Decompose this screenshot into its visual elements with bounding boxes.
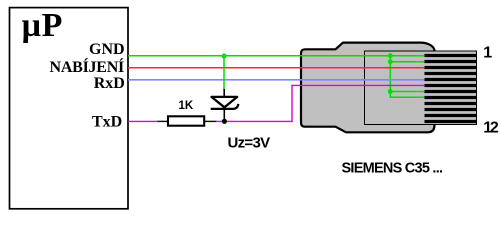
green branch to diode [223,56,225,90]
pin 3 bar [425,66,477,69]
zener diode D1 lead bottom [223,107,225,121]
pin 4 bar [425,72,477,75]
wire RxD blue [128,79,425,81]
zener diode D1 triangle [212,97,238,107]
pin 11 bar [425,114,477,117]
resistor R1 [168,116,204,125]
svg-text:TxD: TxD [92,113,122,130]
pin 7 bar [425,90,477,93]
pin 5 bar [425,78,477,81]
wire to pin 7 [390,91,424,93]
svg-text:SIEMENS C35 ...: SIEMENS C35 ... [342,160,443,176]
pin 10 bar [425,108,477,111]
junction dot TxD/diode [222,119,227,124]
wire TxD magenta from box [128,120,158,122]
wire black out of resistor [205,120,217,122]
wire TxD riser up [291,85,293,122]
pin 12 bar [425,120,477,123]
connector contact block [365,51,477,125]
junction dot GND branch [222,54,227,59]
pin 6 bar [425,84,477,87]
pin 2 bar [425,60,477,63]
green bus vertical in connector [389,56,391,97]
svg-text:RxD: RxD [94,75,125,92]
svg-text:Uz=3V: Uz=3V [228,134,271,151]
junction dot pin2 [388,59,393,64]
wire TxD magenta to riser [216,120,293,122]
svg-text:12: 12 [483,119,499,136]
wire black into resistor [158,120,168,122]
wire TxD to pin 6 [291,84,424,86]
zener diode D1 cathode bar with hook [211,104,239,109]
connector body (Siemens C35 plug) [301,43,435,133]
junction dot pin7 [388,89,393,94]
wire to pin 8 [390,96,425,98]
svg-text:NABÍJENÍ: NABÍJENÍ [50,57,124,76]
svg-text:1K: 1K [179,100,194,112]
microprocessor box U1 [10,8,129,209]
pin 1 bar [425,54,477,57]
wire GND green [128,55,425,57]
pin 8 bar [425,96,477,99]
svg-text:1: 1 [483,45,492,62]
svg-text:µP: µP [22,7,63,44]
svg-text:GND: GND [89,41,125,58]
wire NABÍJENÍ red [128,67,425,69]
junction dot pin1 [388,53,393,58]
pin 9 bar [425,102,477,105]
zener diode D1 lead top [223,89,225,96]
wire to pin 2 [390,61,424,63]
